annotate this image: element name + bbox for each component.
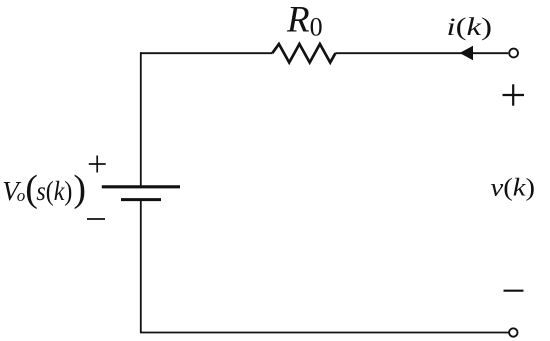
label Vo(s(k)): [2, 168, 86, 210]
terminal plus sign (top right): [503, 84, 525, 105]
resistor R0: [272, 44, 335, 63]
wire top left horizontal (node A to resistor): [140, 52, 272, 54]
battery plus sign: [89, 156, 106, 173]
terminal bottom-right open circle: [509, 328, 517, 336]
terminal minus sign (bottom right): [504, 290, 524, 292]
wire left vertical lower (battery to bottom corner): [140, 200, 142, 333]
svg-text:R0: R0: [286, 0, 323, 42]
arrowhead current i(k): [460, 46, 473, 61]
terminal top-right open circle: [509, 49, 518, 58]
svg-text:i(k): i(k): [447, 14, 493, 41]
svg-text:): ): [73, 168, 86, 210]
svg-text:o: o: [17, 186, 26, 205]
wire bottom horizontal: [140, 332, 509, 334]
svg-text:s(k): s(k): [36, 176, 72, 206]
svg-text:v(k): v(k): [491, 175, 536, 202]
battery V_o top plate: [102, 185, 180, 188]
wire left vertical upper (to battery top plate): [140, 52, 142, 187]
battery V_o bottom plate: [121, 198, 161, 201]
battery minus sign: [87, 218, 105, 220]
wire resistor to top-right terminal: [335, 52, 508, 54]
